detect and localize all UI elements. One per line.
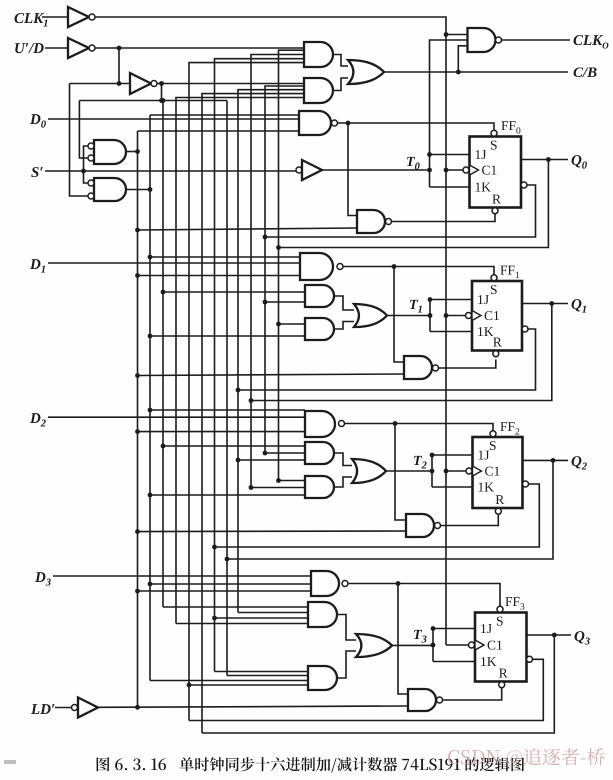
node riser 1J <box>430 453 435 458</box>
wire LD' row to U20 <box>98 706 408 707</box>
rail x137.5 (LD) vertical <box>137 131 139 707</box>
caption text <box>179 757 524 773</box>
rail x238 bottom corner to U18 in2 <box>238 612 308 614</box>
wire to FF2 1J <box>432 454 473 456</box>
wire U15 in2 row <box>138 530 407 533</box>
wire T2 row <box>386 470 432 472</box>
wire Q3' feedback <box>189 659 543 720</box>
wire Q1 feedback <box>251 304 552 401</box>
wire riser to gateA in2 <box>79 101 90 159</box>
node T2 tee <box>430 469 435 474</box>
input label U'/D <box>15 43 25 53</box>
wire U20 out to FF3 R <box>443 688 502 700</box>
wire U6 in2 row <box>138 228 358 230</box>
wire clock to FF0 C1 <box>446 169 463 171</box>
NAND gate U17 (D3 load) <box>311 571 339 596</box>
wire to FF3 1J <box>433 628 475 630</box>
AND gate U8 (T1 up) <box>305 285 334 307</box>
wire T0 row <box>322 169 430 171</box>
node clock tap FF1 <box>444 313 449 318</box>
node tap <box>161 290 166 295</box>
AND gate U9 (T1 down) <box>305 318 334 340</box>
riser T0 to 1J/1K <box>430 40 468 187</box>
wire U14 in1 tap <box>279 480 306 482</box>
NAND gate U6 (FF0 reset) <box>357 210 385 233</box>
OR gate U16 (T2) <box>352 459 386 483</box>
wire to FF1 1J <box>430 299 472 301</box>
wire U14 out to OR <box>334 477 352 487</box>
node U12 out branch <box>393 421 398 426</box>
node tap <box>135 589 140 594</box>
node Q0' joins rail x265 <box>263 235 268 240</box>
rail x278.5 (Q0) to AND U1 in2 <box>279 50 305 480</box>
node tap <box>135 529 140 534</box>
node tap <box>236 458 241 463</box>
watermark CSDN <box>448 748 605 767</box>
wire G3 branch down to row99 <box>161 84 163 101</box>
wire gateA output joins rail x137.5 <box>126 151 138 153</box>
wire Q0 out <box>521 159 568 161</box>
riser T1 <box>429 300 431 332</box>
wire U'/D inverted to AND1 <box>95 47 304 49</box>
wire AND U2 out to OR <box>333 78 348 91</box>
label T3 <box>414 630 422 639</box>
wire U13 out to OR <box>334 453 352 466</box>
AND gate U1 (max detect, 5-in) <box>304 42 333 67</box>
rail x238 (Q1') to AND U2 in3 <box>238 90 304 613</box>
node U5 out branch <box>346 121 351 126</box>
node tap <box>263 451 268 456</box>
wire S' riser to gateA in1 <box>84 146 91 171</box>
OR gate U21 (T3) <box>356 634 392 657</box>
flip-flop FF0 <box>470 137 522 208</box>
input label S' <box>31 167 38 177</box>
wire U7 branch down to U10 <box>394 267 404 363</box>
NAND gate U10 (FF1 reset) <box>404 356 432 379</box>
gate B (down enable AND, inverted inputs) <box>94 178 126 201</box>
wire U14 in3 tap <box>150 494 305 496</box>
node Q1 <box>549 301 554 306</box>
node Q0 joins rail x278.5 <box>276 245 281 250</box>
node on row84 <box>117 81 122 86</box>
rail x150 vertical <box>149 115 151 681</box>
wire U7 in3 tap <box>138 275 301 277</box>
input label D3 <box>35 572 46 582</box>
wire Q2 feedback <box>227 460 553 559</box>
wire U8 out to OR <box>334 296 354 310</box>
rail x265 (Q0') to AND U2 in2 <box>265 86 304 453</box>
AND gate U18 (T3 up) <box>308 602 337 627</box>
input label LD' <box>31 704 40 714</box>
inverter G1 (CLK1) <box>68 7 89 27</box>
wire U10 in2 row <box>138 374 405 376</box>
OR gate U3 (C/B) <box>348 60 384 84</box>
node Q2 joins rail <box>225 557 230 562</box>
wire Q0' bubble <box>521 182 527 188</box>
label T1 <box>410 300 418 309</box>
node tap <box>148 408 153 413</box>
wire U7 in1 tap <box>150 256 300 258</box>
wire Q3 feedback <box>202 635 554 733</box>
node clock tap FF0 <box>444 168 449 173</box>
output label Q3 <box>575 631 585 643</box>
wire to FF3 1K <box>433 661 475 663</box>
node tap <box>187 683 192 688</box>
node Q2' joins rail <box>212 545 217 550</box>
rail x176 to AND U2 in5 <box>176 98 304 624</box>
Q3' bubble <box>527 656 533 662</box>
wire U'/D label to inverter <box>45 47 68 49</box>
wire U9 in2 tap <box>150 335 305 337</box>
node tap <box>135 429 140 434</box>
rail x163 bottom corner to U18 in1 <box>163 606 308 608</box>
wire CLKO in1 <box>446 34 468 36</box>
node tap <box>148 255 153 260</box>
node G3 out branch <box>159 81 164 86</box>
OR gate U11 (T1) <box>354 304 387 327</box>
rail x176 bottom corner to U18 in4 <box>176 623 308 625</box>
label FF0 <box>501 121 508 130</box>
NAND gate U5 (D0 load) <box>299 111 331 135</box>
wire U6 out to FF0 R <box>392 214 496 222</box>
node T1 tee <box>428 313 433 318</box>
wire U12 out row to FF2 S <box>345 424 494 431</box>
Q2' bubble <box>523 481 529 487</box>
AND gate U2 (min detect, 5-in) <box>304 78 333 103</box>
wire clock corner to FF3 C1 <box>446 644 469 646</box>
node T3 tee <box>431 643 436 648</box>
wire Q2 out <box>523 459 569 461</box>
wire U9 out to OR <box>334 322 354 330</box>
node tap <box>135 373 140 378</box>
wire D3 row <box>53 575 311 577</box>
inverter G2 (U'/D) <box>68 38 89 58</box>
wire C/B riser to CLKO gate <box>458 46 467 72</box>
wire CLK1 label to inverter <box>42 16 68 18</box>
output label CLKO <box>574 35 584 45</box>
NAND gate U4 (CLKO) <box>468 28 496 52</box>
wire Q3 out <box>527 634 572 636</box>
rail x163 (up enable) vertical <box>162 101 164 608</box>
wire clock to FF1 C1 <box>446 315 466 317</box>
rail x150 bottom to U19 in3 <box>150 680 308 682</box>
wire U'/D branch down <box>118 48 120 84</box>
wire U13 in3 tap <box>238 459 305 461</box>
wire clock to FF2 C1 <box>446 470 466 472</box>
wire U17 out row to FF3 S <box>348 584 500 607</box>
output label Q1 <box>572 299 582 311</box>
node LD' joins rail x137.5 <box>135 705 140 710</box>
node rail x163 taps row99 <box>161 98 166 103</box>
wire C/B row <box>384 71 568 73</box>
wire Q2' feedback <box>215 484 540 547</box>
NAND gate U20 (FF3 reset) <box>408 689 436 711</box>
wire rail x150 top corner to U5 in1 <box>150 114 299 116</box>
node C/B riser <box>456 70 461 75</box>
wire U10 out to FF1 R <box>439 360 496 369</box>
flip-flop FF3 <box>475 613 527 682</box>
wire T1 row <box>387 315 430 317</box>
NAND gate U12 (D2 load) <box>305 411 335 437</box>
wire U19 out to OR <box>337 651 356 678</box>
node tap <box>148 493 153 498</box>
wire U8 in2 tap <box>265 301 305 303</box>
node tap <box>276 322 281 327</box>
AND gate U13 (T2 up) <box>305 442 334 464</box>
inverter G5 (LD') <box>72 705 78 711</box>
wire CLK1 inverted to clock rail corner <box>95 17 446 35</box>
node gateA out tee <box>135 149 140 154</box>
wire D2 row <box>48 416 305 418</box>
wire U17 in2 tap <box>150 583 311 585</box>
wire Q0 feedback <box>279 160 549 248</box>
AND gate U19 (T3 down) <box>308 666 337 690</box>
flip-flop FF2 <box>473 437 523 508</box>
node tap <box>161 444 166 449</box>
node clock joins CLKO gate <box>444 32 449 37</box>
output label Q2 <box>572 456 582 468</box>
wire U12 in3 tap <box>138 431 306 433</box>
node riser 1J <box>431 626 436 631</box>
rail x227 (Q2) <box>226 101 228 676</box>
wire U17 branch down to U20 <box>398 584 408 695</box>
wire D1 row <box>48 262 300 264</box>
NAND gate U7 (D1 load) <box>300 253 333 280</box>
wire U5 branch to R-NAND0 <box>348 123 357 216</box>
node clock tap FF2 <box>444 469 449 474</box>
wire U7 out row to FF1 S <box>343 267 494 275</box>
wire to FF2 1K <box>432 486 473 488</box>
wire T3 row <box>392 644 433 646</box>
wire U13 in1 tap <box>163 445 305 447</box>
AND gate U14 (T2 down) <box>305 476 334 498</box>
wire left riser to gateB in2 <box>70 84 91 197</box>
input label CLK1 <box>15 13 25 23</box>
wire row99 <box>79 100 227 102</box>
wire S' riser to gateB in1 <box>84 171 91 183</box>
node Q1' joins rail <box>236 388 241 393</box>
node tap <box>135 273 140 278</box>
gate A (up enable AND, inverted inputs) <box>94 140 126 164</box>
svg-text:C/B: C/B <box>573 65 597 81</box>
node Q0 <box>546 157 551 162</box>
node riser at 1J <box>427 152 432 157</box>
riser T3 <box>432 629 434 662</box>
label T0 <box>407 157 415 166</box>
Q1' bubble <box>522 326 528 332</box>
node U7 out branch <box>392 264 397 269</box>
node Q1 joins rail <box>249 398 254 403</box>
scan speck <box>4 760 16 764</box>
wire CLKO out <box>502 39 571 41</box>
label FF3 <box>505 597 512 606</box>
wire U13 in2 tap <box>265 452 305 454</box>
rail x227 bottom to U19 in2 <box>227 675 308 677</box>
wire U8 in1 tap <box>163 291 305 293</box>
NAND gate U15 (FF2 reset) <box>406 514 434 537</box>
flip-flop FF1 <box>472 281 522 351</box>
node Q2 <box>551 458 556 463</box>
wire to FF0 1K <box>430 186 470 188</box>
input label D0 <box>30 114 41 124</box>
wire U14 in2 tap <box>251 487 305 489</box>
label FF2 <box>500 422 507 431</box>
node S' branch <box>81 169 86 174</box>
rail x214.5 (Q2') to AND U1 in4 <box>215 59 305 672</box>
wire S' row to T0 inverter <box>45 170 296 172</box>
node tap <box>148 582 153 587</box>
inverter G3 (U/D restore) <box>130 73 151 94</box>
wire U18 out to OR <box>337 615 356 641</box>
node row99 tee <box>159 98 164 103</box>
wire gateB output joins rail x150 <box>126 189 150 191</box>
label FF1 <box>500 266 507 275</box>
wire rail x137.5 top corner to U5 in3 <box>138 130 300 132</box>
node U17 out branch <box>396 581 401 586</box>
wire to FF0 1J <box>430 154 470 156</box>
rail x251 (Q1) to AND U1 in3 <box>251 55 304 488</box>
caption figure number <box>97 757 166 771</box>
wire clock rail vertical <box>445 35 447 646</box>
wire U15 out to FF2 R <box>441 515 499 526</box>
wire Q1' feedback <box>238 329 536 390</box>
rail x202 (Q3) to AND U2 in4 <box>202 94 304 733</box>
wire Q1 out <box>522 303 568 305</box>
node tap <box>263 300 268 305</box>
rail x189 (Q3') to AND U1 in5 <box>189 63 304 721</box>
wire U19 in4 tap from x189 <box>189 684 308 686</box>
node Q3 <box>552 633 557 638</box>
wire to FF1 1K <box>430 331 472 333</box>
node T0 tee <box>427 168 432 173</box>
node rail137 tap U6 <box>135 228 140 233</box>
wire U12 branch down to U15 <box>395 424 406 521</box>
riser T2 <box>431 455 433 487</box>
inverter G4 (T0) <box>296 167 302 173</box>
input label D2 <box>30 413 41 423</box>
output label Q0 <box>572 155 582 167</box>
node tap <box>148 334 153 339</box>
wire U5 out row to FF0 S <box>338 123 495 130</box>
node tap <box>212 616 217 621</box>
wire U9 in1 tap <box>279 323 306 325</box>
wire U18 in3 tap from x214.5 <box>215 617 309 619</box>
wire G3 out to AND2 in1 <box>157 83 304 85</box>
input label D1 <box>30 259 41 269</box>
node tap <box>276 478 281 483</box>
wire Q0' feedback <box>265 185 536 237</box>
wire D0 row <box>48 118 299 120</box>
node U'/D branch <box>117 46 122 51</box>
rail x214.5 bottom to U19 in1 <box>215 671 309 673</box>
wire row84 to inverter G3 input <box>70 83 131 85</box>
label T2 <box>414 456 422 465</box>
wire U12 in1 tap <box>150 409 305 411</box>
node tap <box>249 485 254 490</box>
wire AND U1 out to OR <box>333 55 348 67</box>
wire LD' label to inverter <box>55 707 72 709</box>
wire U17 in3 tap <box>138 590 312 592</box>
node riser 1J <box>428 297 433 302</box>
node gateB out tee <box>148 187 153 192</box>
